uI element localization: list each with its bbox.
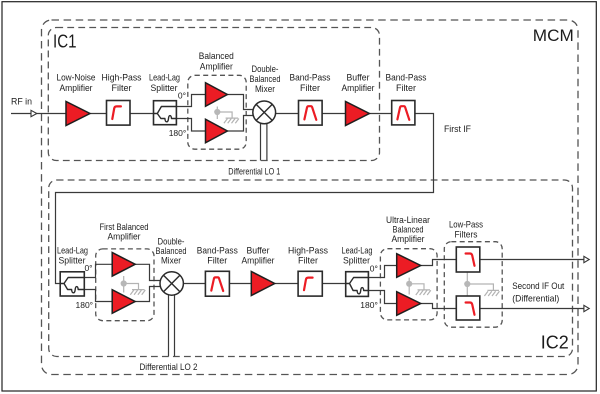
svg-text:MCM: MCM bbox=[533, 27, 574, 45]
svg-text:Splitter: Splitter bbox=[343, 255, 370, 266]
svg-text:Filter: Filter bbox=[298, 255, 318, 266]
svg-text:Splitter: Splitter bbox=[151, 83, 178, 94]
svg-text:180°: 180° bbox=[76, 300, 94, 310]
svg-text:Amplifier: Amplifier bbox=[200, 62, 233, 73]
svg-text:Balanced: Balanced bbox=[199, 51, 234, 62]
svg-text:180°: 180° bbox=[169, 128, 187, 138]
svg-text:Amplifier: Amplifier bbox=[242, 255, 275, 266]
svg-text:0°: 0° bbox=[370, 263, 378, 273]
svg-text:Second IF Out: Second IF Out bbox=[512, 281, 564, 292]
svg-text:Amplifier: Amplifier bbox=[342, 83, 375, 94]
svg-text:Filter: Filter bbox=[300, 83, 320, 94]
svg-text:Filter: Filter bbox=[396, 83, 416, 94]
svg-text:Filter: Filter bbox=[112, 83, 132, 94]
svg-text:RF in: RF in bbox=[11, 96, 32, 107]
svg-text:Amplifier: Amplifier bbox=[60, 83, 93, 94]
svg-text:Filters: Filters bbox=[455, 229, 478, 240]
svg-text:Splitter: Splitter bbox=[59, 255, 86, 266]
svg-text:Filter: Filter bbox=[207, 255, 227, 266]
svg-text:First IF: First IF bbox=[444, 124, 471, 135]
svg-text:Differential LO 1: Differential LO 1 bbox=[228, 167, 280, 178]
svg-text:Amplifier: Amplifier bbox=[392, 234, 425, 245]
svg-text:IC1: IC1 bbox=[53, 32, 77, 52]
svg-text:Mixer: Mixer bbox=[161, 255, 181, 266]
svg-text:0°: 0° bbox=[84, 263, 92, 273]
svg-text:180°: 180° bbox=[360, 300, 378, 310]
svg-text:Amplifier: Amplifier bbox=[108, 232, 141, 243]
svg-text:IC2: IC2 bbox=[541, 332, 569, 352]
svg-text:0°: 0° bbox=[178, 91, 186, 101]
svg-text:Differential LO 2: Differential LO 2 bbox=[140, 362, 198, 373]
svg-text:Mixer: Mixer bbox=[255, 84, 275, 95]
svg-text:(Differential): (Differential) bbox=[512, 293, 559, 304]
